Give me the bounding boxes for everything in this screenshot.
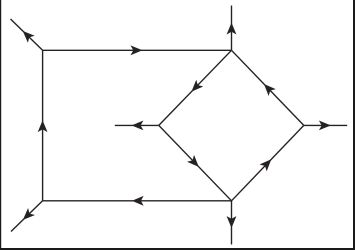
wire F-out [115,124,159,126]
wire F-D [159,125,232,200]
arrowhead E-out [24,209,34,219]
wire E-A [42,50,44,201]
wire B-out [231,6,233,51]
border left [0,0,1,250]
wire A-B [43,49,232,51]
wire B-F [159,50,232,125]
arrowhead B-F [192,81,202,91]
wire D-out [231,201,233,245]
arrowhead E-A [38,121,46,131]
wire A-out [11,19,43,50]
wire C-B [232,50,304,125]
arrowhead D-E [133,197,143,205]
wire C-out [304,124,347,126]
arrowhead D-out [227,217,235,227]
arrowhead F-D [188,156,198,166]
arrowhead C-out [320,121,330,129]
arrowhead A-B [131,46,141,54]
arrowhead D-C [261,160,271,170]
wire D-E [43,200,232,202]
arrowhead F-out [132,121,142,129]
arrowhead A-out [23,32,33,42]
border bottom [0,248,355,250]
wire D-C [232,125,304,200]
arrowhead B-out [227,24,235,34]
arrowhead C-B [265,85,275,95]
wire E-out [11,201,43,232]
border right [353,0,355,250]
